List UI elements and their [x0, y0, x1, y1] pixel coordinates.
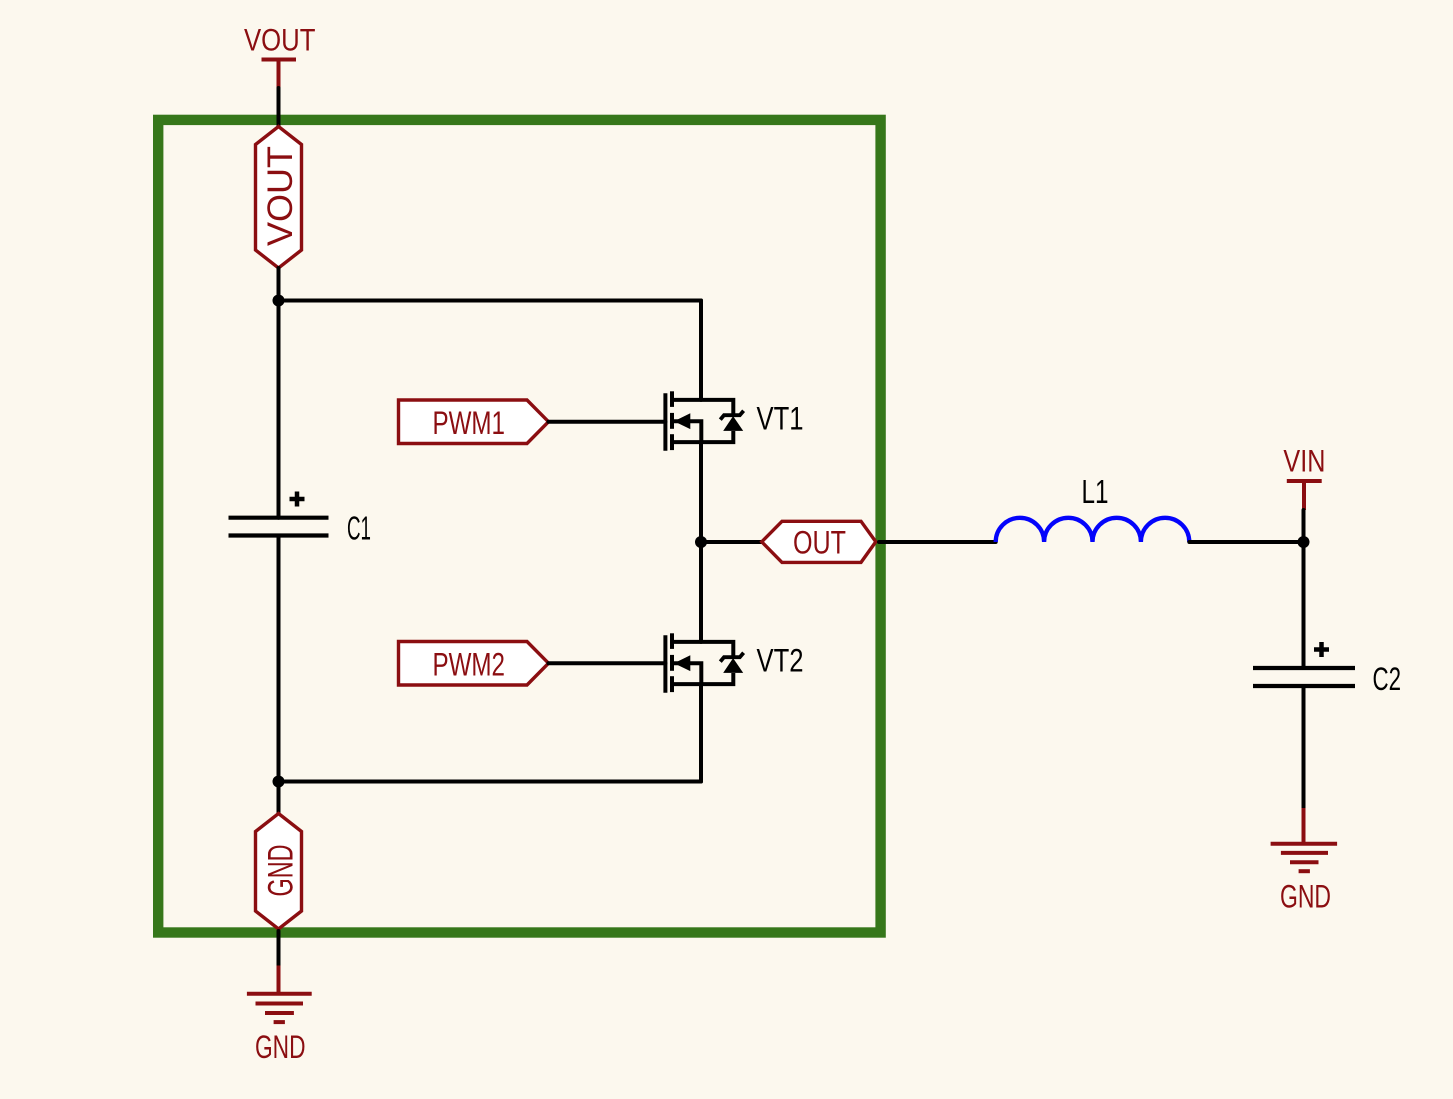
hierarchical label OUT: [762, 521, 876, 562]
junction node bottom-left: [273, 776, 285, 788]
svg-text:GND: GND: [1280, 879, 1331, 915]
hierarchical label GND: [256, 814, 302, 930]
transistor VT2: [665, 633, 803, 692]
inductor L1: [996, 473, 1190, 542]
svg-text:PWM1: PWM1: [433, 405, 506, 441]
sheet boundary (green box): [158, 120, 880, 933]
svg-text:VT2: VT2: [757, 643, 804, 679]
wire junction to C1 top: [277, 301, 281, 518]
svg-text:GND: GND: [255, 1029, 306, 1065]
hierarchical label PWM1: [399, 400, 549, 444]
wire junction to hier label GND: [277, 782, 281, 814]
wire PWM1 to VT1 gate: [549, 420, 666, 424]
junction node VIN: [1298, 536, 1310, 548]
transistor VT1: [665, 391, 803, 450]
svg-text:VOUT: VOUT: [244, 22, 316, 58]
wire top horizontal to VT1 drain: [279, 301, 702, 400]
hierarchical label VOUT: [256, 127, 302, 269]
ground GND (right): [1271, 808, 1338, 915]
ground GND (bottom left): [247, 966, 312, 1066]
capacitor C1: [229, 492, 372, 547]
wire VIN junction to C2: [1302, 542, 1306, 668]
svg-text:C2: C2: [1373, 661, 1402, 697]
wire VT1 source to OUT junction: [699, 442, 703, 542]
power symbol VIN: [1283, 443, 1325, 510]
wire VOUT pin to hierarchical label: [277, 88, 281, 127]
capacitor C2: [1253, 642, 1401, 697]
svg-text:GND: GND: [262, 845, 301, 897]
svg-text:VOUT: VOUT: [261, 146, 300, 246]
junction node OUT: [695, 536, 707, 548]
power symbol VOUT: [244, 22, 316, 89]
wire VIN pin to junction: [1302, 510, 1306, 542]
wire L1 to VIN junction: [1189, 540, 1303, 544]
junction node top-left: [273, 295, 285, 307]
wire VT2 source to bottom rail: [699, 684, 703, 781]
svg-text:PWM2: PWM2: [433, 647, 506, 683]
svg-text:L1: L1: [1082, 473, 1109, 510]
svg-text:OUT: OUT: [793, 525, 846, 561]
wire OUT junction to VT2 drain: [699, 542, 703, 642]
wire bottom rail: [279, 780, 702, 784]
wire C1 bottom to bottom junction: [277, 536, 281, 782]
wire hier label VOUT to junction: [277, 268, 281, 301]
wire PWM2 to VT2 gate: [549, 661, 666, 665]
svg-text:C1: C1: [347, 510, 371, 547]
wire OUT label to L1: [879, 540, 996, 544]
svg-text:VT1: VT1: [757, 401, 804, 437]
hierarchical label PWM2: [399, 642, 549, 686]
wire OUT junction to hier label OUT: [701, 540, 762, 544]
wire C2 to ground: [1302, 686, 1306, 808]
wire hier label GND to ground symbol: [277, 931, 281, 966]
svg-text:VIN: VIN: [1283, 443, 1325, 479]
